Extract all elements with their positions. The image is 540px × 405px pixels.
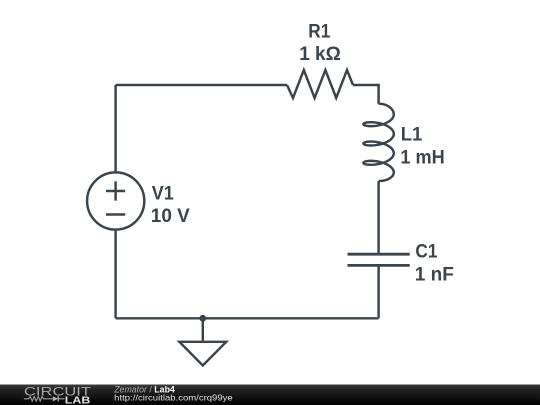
label L1 value 1 mH: [400, 148, 444, 169]
svg-text:V1: V1: [152, 183, 174, 204]
wire left bottom vertical: [114, 230, 116, 319]
svg-text:LAB: LAB: [65, 395, 91, 405]
label R1: [308, 21, 330, 42]
node junction dot: [199, 315, 206, 322]
wire capacitor to bottom rail: [377, 267, 379, 319]
label R1 value 1 kOhm: [299, 44, 341, 65]
footer bar: [0, 385, 540, 405]
wire top-left horizontal: [116, 84, 287, 86]
wire inductor to capacitor: [377, 181, 379, 253]
footer url: [114, 392, 233, 402]
inductor L1: [363, 104, 393, 181]
footer logo LAB text: [65, 395, 91, 405]
label C1 value 1 nF: [415, 265, 454, 286]
label V1 value 10 V: [151, 206, 190, 227]
wire bottom rail: [116, 317, 379, 319]
svg-text:R1: R1: [308, 21, 330, 42]
svg-text:L1: L1: [401, 125, 423, 146]
voltage source V1: [87, 172, 144, 229]
wire top-right corner: [353, 85, 379, 104]
svg-text:http://circuitlab.com/crq99ye: http://circuitlab.com/crq99ye: [114, 392, 233, 402]
svg-text:1 mH: 1 mH: [400, 148, 444, 169]
label C1: [415, 242, 437, 263]
footer logo wire with resistor and diode: [24, 396, 65, 401]
svg-text:1 kΩ: 1 kΩ: [299, 44, 341, 65]
resistor R1: [287, 70, 353, 98]
footer logo CIRCUIT text: [24, 385, 92, 399]
label V1: [152, 183, 174, 204]
svg-text:C1: C1: [415, 242, 437, 263]
footer title Zemator / Lab4: [113, 384, 175, 394]
svg-text:10 V: 10 V: [151, 206, 190, 227]
wire left top vertical: [114, 85, 116, 172]
svg-text:1 nF: 1 nF: [415, 265, 454, 286]
capacitor C1: [348, 254, 410, 265]
label L1: [401, 125, 423, 146]
ground: [179, 318, 226, 365]
